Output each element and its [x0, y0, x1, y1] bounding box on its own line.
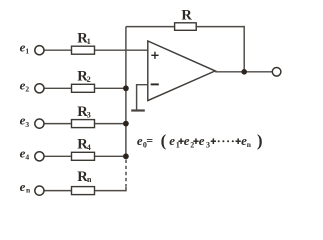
resistor R1	[72, 46, 95, 54]
wire Rn to dashed bus	[95, 187, 126, 191]
svg-text:e: e	[20, 179, 26, 194]
svg-text:R: R	[181, 7, 192, 23]
svg-text:2: 2	[25, 85, 29, 94]
svg-text:n: n	[26, 186, 31, 195]
wire op-amp inverting input to ground	[137, 85, 148, 110]
node junction e2/bus	[123, 85, 129, 91]
input terminal e4	[35, 152, 44, 161]
wire R4 to summing bus	[95, 155, 126, 157]
resistor R4	[72, 152, 95, 160]
ground	[131, 109, 145, 111]
svg-text:3: 3	[25, 120, 29, 129]
svg-text:(: (	[161, 131, 167, 150]
svg-text:3: 3	[206, 141, 210, 150]
resistor R3	[72, 120, 95, 128]
resistor R (feedback)	[175, 23, 197, 31]
svg-text:n: n	[247, 140, 252, 149]
svg-text:): )	[257, 131, 263, 150]
wire en input (terminal to Rn)	[44, 190, 71, 192]
svg-text:e: e	[184, 133, 190, 148]
svg-text:n: n	[87, 175, 92, 184]
svg-text:4: 4	[87, 143, 91, 152]
input terminal en	[35, 186, 44, 195]
input terminal e2	[35, 84, 44, 93]
node junction e4/bus	[123, 153, 129, 159]
output terminal	[272, 68, 281, 77]
resistor Rn	[72, 187, 95, 195]
wire R1 to op-amp non-inverting input	[95, 49, 148, 51]
node junction e3/bus	[123, 121, 129, 127]
svg-text:=: =	[146, 134, 153, 148]
formula e0 = (e1+e2+e3+...+en)	[137, 131, 263, 150]
op-amp - pin marker	[151, 83, 159, 85]
input terminal e3	[35, 119, 44, 128]
op-amp + pin marker	[151, 52, 158, 59]
op-amp U1	[148, 41, 215, 101]
wire feedback top left (bus to R)	[126, 26, 175, 28]
resistor R2	[72, 84, 95, 92]
input terminal e1	[35, 46, 44, 55]
wire summing bus vertical	[125, 27, 127, 157]
wire feedback top right (R to corner and down to output node)	[196, 27, 244, 72]
svg-text:e: e	[169, 133, 175, 148]
wire R3 to summing bus	[95, 123, 126, 125]
wire R2 to summing bus	[95, 87, 126, 89]
wire dashed bus continuation	[125, 160, 127, 187]
svg-text:4: 4	[25, 153, 29, 162]
node junction output/feedback	[241, 69, 247, 75]
wire op-amp output	[215, 71, 272, 73]
svg-text:2: 2	[87, 75, 91, 84]
wire e3 input (terminal to R3)	[44, 123, 71, 125]
wire e4 input (terminal to R4)	[44, 155, 71, 157]
svg-text:1: 1	[87, 37, 91, 46]
wire e2 input (terminal to R2)	[44, 87, 71, 89]
svg-text:e: e	[199, 133, 205, 148]
svg-text:3: 3	[87, 110, 91, 119]
wire e1 input (terminal to R1)	[44, 49, 71, 51]
svg-text:1: 1	[25, 47, 29, 56]
